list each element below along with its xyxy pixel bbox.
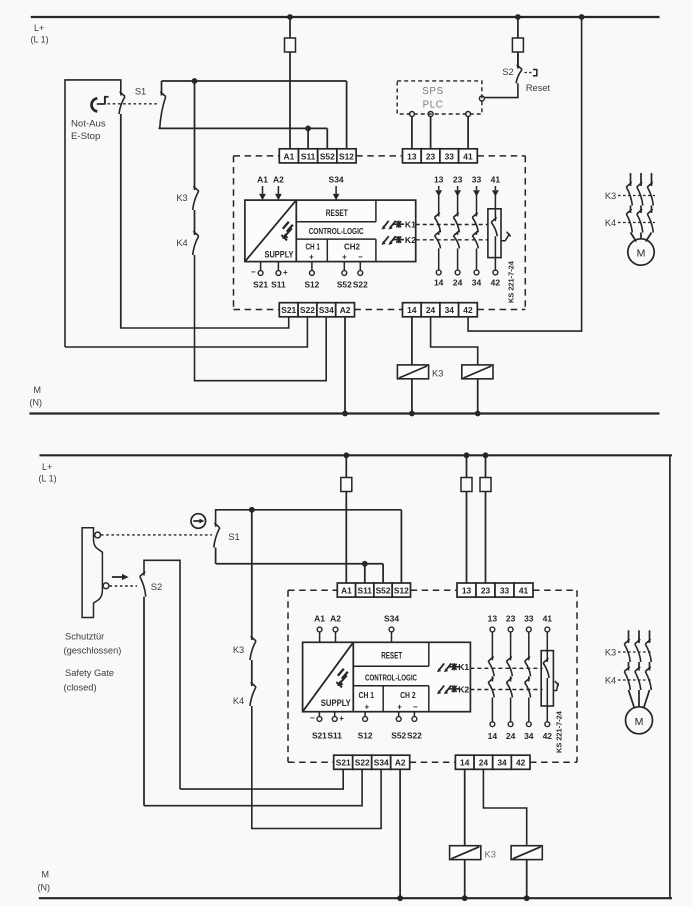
svg-text:SUPPLY: SUPPLY	[321, 697, 352, 708]
terminal strip 13 23 33 41	[403, 149, 422, 163]
safety relay module dashed outline bottom	[288, 589, 337, 591]
wire S22 route	[65, 316, 307, 347]
switch S2 reset button	[517, 52, 519, 69]
supply section divider and diagonal	[295, 200, 297, 262]
gate roller bottom	[103, 583, 109, 589]
wire e-stop staple loop	[65, 80, 121, 347]
contact K4 feedback bottom	[250, 687, 256, 706]
mechanical link e-stop to S1	[108, 103, 159, 105]
motor branch supply stubs	[630, 173, 632, 186]
relay K2 actuation dashed line	[416, 239, 488, 241]
svg-text:S52: S52	[391, 731, 406, 741]
svg-text:41: 41	[463, 151, 473, 161]
svg-text:KS 221-7-24: KS 221-7-24	[507, 260, 516, 303]
wire S12 drop	[346, 81, 348, 149]
module pin S22 bottom	[413, 712, 415, 717]
fuse F2 on reset/contact supply wire	[515, 14, 521, 20]
NC contact seat tick bottom	[553, 683, 558, 691]
CONTROL-LOGIC band bottom	[353, 685, 429, 687]
channel CH2 box	[375, 239, 377, 262]
svg-text:Safety Gate: Safety Gate	[65, 668, 114, 678]
wires into motor	[631, 233, 637, 242]
svg-text:K1: K1	[405, 220, 416, 230]
contactor K4 main contacts bottom	[618, 679, 653, 681]
PLC terminal to reset switch	[479, 96, 484, 101]
svg-text:(geschlossen): (geschlossen)	[64, 646, 122, 656]
node M rail (top diagram)	[29, 412, 659, 414]
module pin S11 with plus	[277, 262, 279, 271]
wire 14 to coil K3 bottom	[464, 769, 466, 845]
wire 24 to contactor coil K4	[431, 316, 478, 365]
svg-text:+: +	[397, 703, 402, 712]
svg-text:(closed): (closed)	[64, 683, 97, 693]
svg-text:+: +	[309, 252, 314, 261]
svg-text:S12: S12	[358, 731, 373, 741]
svg-text:S2: S2	[151, 582, 163, 593]
svg-text:+: +	[283, 268, 288, 277]
emergency stop actuator (mushroom head)	[92, 98, 98, 111]
svg-text:RESET: RESET	[381, 651, 402, 661]
svg-text:S2: S2	[502, 67, 513, 77]
fuse F4 on 13 wire	[464, 452, 470, 458]
svg-text:CH 1: CH 1	[305, 242, 320, 251]
fuse F3 on A1 wire	[343, 452, 349, 458]
contactor K3 main contacts	[618, 195, 655, 197]
svg-text:41: 41	[491, 175, 501, 185]
terminal strip 13 23 33 41 bottom	[457, 583, 476, 597]
svg-text:S21: S21	[281, 305, 296, 315]
svg-text:S21: S21	[253, 280, 268, 290]
svg-text:M: M	[635, 716, 644, 728]
svg-text:S1: S1	[135, 87, 146, 97]
svg-text:14: 14	[488, 731, 498, 741]
svg-text:23: 23	[506, 614, 516, 624]
svg-text:−: −	[413, 703, 418, 712]
motor branch supply stubs bottom	[628, 630, 630, 643]
svg-text:S52: S52	[376, 586, 391, 596]
svg-text:A1: A1	[341, 586, 352, 596]
contactor coil K4 bottom	[511, 846, 542, 860]
supply isolation symbol bottom	[338, 669, 344, 676]
wire A2 to M rail	[344, 316, 346, 413]
relay K2 indicator	[384, 236, 389, 243]
module pin S52	[343, 262, 345, 271]
svg-text:−: −	[358, 252, 363, 261]
channel CH2 box bottom	[428, 686, 430, 712]
svg-text:Not-Aus: Not-Aus	[71, 119, 106, 130]
svg-text:CONTROL-LOGIC: CONTROL-LOGIC	[309, 227, 364, 236]
wire A2 to M rail bottom	[399, 769, 401, 898]
node junction S11 tap	[305, 125, 311, 131]
wire S22 route bottom	[144, 769, 362, 805]
svg-text:S34: S34	[329, 175, 344, 185]
wire 24 to coil K4 bottom	[483, 769, 526, 845]
module pin S21 bottom	[318, 712, 320, 717]
svg-text:CH2: CH2	[344, 242, 360, 251]
wires into motor bottom	[629, 690, 635, 709]
module pin S11 bottom	[334, 712, 336, 717]
contactor K4 main contacts	[618, 222, 655, 224]
svg-text:A2: A2	[395, 758, 406, 768]
svg-text:42: 42	[516, 758, 526, 768]
wire feedback chain from S1 junction	[194, 81, 196, 190]
svg-text:(N): (N)	[38, 883, 51, 893]
svg-text:K3: K3	[485, 850, 496, 860]
wire 14 to contactor coil K3	[411, 316, 413, 365]
positive opening symbol	[191, 514, 206, 529]
svg-text:S1: S1	[228, 532, 240, 543]
safety gate symbol	[82, 528, 102, 618]
svg-text:S21: S21	[312, 731, 327, 741]
svg-text:24: 24	[426, 305, 436, 315]
node L+ rail (bottom diagram)	[40, 454, 673, 456]
svg-text:24: 24	[453, 278, 463, 288]
svg-text:SUPPLY: SUPPLY	[265, 249, 295, 260]
wire S1 pole2 bottom to S11/S52	[159, 127, 328, 129]
svg-text:K2: K2	[458, 684, 469, 694]
svg-text:S11: S11	[301, 151, 316, 161]
svg-text:+: +	[364, 703, 369, 712]
relay K2 dashed line bottom	[470, 689, 542, 691]
module pin S12 bottom	[364, 712, 366, 717]
contact K3 feedback bottom	[250, 641, 256, 660]
terminal strip 14 24 34 42 bottom	[455, 755, 474, 769]
node L+ rail (top diagram)	[31, 16, 660, 18]
NC contact seat tick	[501, 234, 510, 241]
svg-text:33: 33	[445, 151, 455, 161]
wire S2 to PLC	[485, 83, 518, 97]
svg-text:CONTROL-LOGIC: CONTROL-LOGIC	[365, 673, 417, 682]
svg-text:L+: L+	[42, 462, 52, 472]
contact K4 feedback (in S34 chain)	[193, 236, 199, 255]
wire chain to S34 bottom	[252, 706, 381, 829]
svg-text:23: 23	[481, 586, 491, 596]
svg-text:34: 34	[524, 731, 534, 741]
actuation direction arrow	[112, 576, 124, 578]
wire S11 drop	[307, 128, 309, 148]
svg-text:RESET: RESET	[326, 208, 348, 218]
svg-text:23: 23	[453, 175, 463, 185]
motor M bottom	[626, 707, 653, 734]
svg-text:S34: S34	[319, 305, 334, 315]
svg-text:A2: A2	[273, 175, 284, 185]
svg-text:14: 14	[434, 278, 444, 288]
module pin S22	[359, 262, 361, 271]
svg-text:33: 33	[524, 614, 534, 624]
relay K1 indicator	[384, 221, 389, 228]
svg-text:−: −	[310, 714, 315, 723]
svg-text:13: 13	[434, 175, 444, 185]
svg-text:PLC: PLC	[423, 100, 444, 111]
svg-text:S11: S11	[271, 280, 286, 290]
svg-text:K1: K1	[458, 662, 469, 672]
terminal strip S21 S22 S34 A2 bottom	[334, 755, 353, 769]
terminal strip S21 S22 S34 A2	[279, 303, 298, 317]
terminal strip 14 24 34 42	[403, 303, 422, 317]
contactor K3 main contacts bottom	[618, 651, 653, 653]
relay K2 indicator bottom	[439, 686, 444, 693]
supply isolation symbol	[283, 222, 289, 229]
svg-text:K4: K4	[233, 696, 244, 706]
wire 42 return to L+	[468, 17, 581, 331]
switch S2 (gate closed NO)	[144, 560, 180, 789]
svg-text:CH 1: CH 1	[359, 691, 375, 700]
svg-text:K3: K3	[605, 648, 616, 658]
svg-text:S12: S12	[394, 586, 409, 596]
svg-text:42: 42	[543, 731, 553, 741]
terminal strip A1 S11 S52 S12 bottom	[337, 583, 355, 597]
wire S1 bottom to S11/S52	[216, 563, 384, 565]
svg-text:S34: S34	[374, 758, 389, 768]
wire S21 route bottom	[180, 769, 343, 789]
svg-text:S52: S52	[320, 151, 335, 161]
svg-text:14: 14	[407, 305, 417, 315]
svg-text:K3: K3	[176, 193, 187, 203]
wire S12 drop bottom diagram	[400, 510, 402, 583]
module pin S12	[311, 262, 313, 271]
fuse F1 on A1 supply wire	[287, 14, 293, 20]
contactor coil K3 bottom	[450, 846, 481, 860]
svg-text:A1: A1	[257, 175, 268, 185]
mechanical link gate to S1	[101, 534, 212, 536]
switch S1 (gate closed NC)	[216, 510, 402, 527]
module body	[245, 200, 416, 262]
node junction S11 tap bottom	[362, 561, 368, 567]
svg-text:S22: S22	[353, 280, 368, 290]
node junction S1 top / chain	[249, 507, 255, 513]
svg-text:K4: K4	[176, 238, 187, 248]
svg-text:CH 2: CH 2	[400, 691, 416, 700]
svg-text:13: 13	[462, 586, 472, 596]
svg-text:24: 24	[479, 758, 489, 768]
wire S52 drop	[326, 128, 328, 148]
svg-text:41: 41	[543, 614, 553, 624]
safety relay module dashed outline	[234, 155, 280, 157]
svg-text:23: 23	[426, 151, 436, 161]
svg-text:−: −	[251, 268, 256, 277]
relay K1 actuation dashed line	[416, 224, 488, 226]
supply divider bottom	[352, 642, 354, 711]
svg-text:+: +	[339, 714, 344, 723]
svg-text:(L 1): (L 1)	[31, 35, 49, 45]
svg-text:24: 24	[506, 731, 516, 741]
svg-text:S11: S11	[327, 731, 342, 741]
wire between K3 and K4 feedback contacts	[194, 210, 196, 235]
PLC box SPS/PLC	[397, 81, 482, 114]
svg-text:S12: S12	[304, 280, 319, 290]
node M rail (bottom diagram)	[39, 897, 672, 899]
svg-text:K4: K4	[605, 218, 616, 228]
fuse F5 on 23 wire	[483, 452, 489, 458]
svg-text:A1: A1	[314, 614, 325, 624]
module pin S52 bottom	[398, 712, 400, 717]
channel CH1 box bottom	[382, 686, 384, 712]
wire S21 route	[120, 316, 289, 328]
relay K1 dashed line bottom	[470, 667, 542, 669]
svg-text:S52: S52	[337, 280, 352, 290]
svg-text:34: 34	[445, 305, 455, 315]
svg-text:13: 13	[407, 151, 417, 161]
CONTROL-LOGIC band	[296, 238, 376, 240]
contact K3 feedback (in S34 chain)	[193, 191, 199, 210]
svg-text:34: 34	[472, 278, 482, 288]
svg-text:A2: A2	[330, 614, 341, 624]
svg-text:K3: K3	[605, 191, 616, 201]
wire S11 drop bottom	[364, 564, 366, 583]
svg-text:S22: S22	[300, 305, 315, 315]
module body bottom	[303, 642, 471, 711]
motor M	[628, 239, 654, 265]
svg-text:+: +	[342, 252, 347, 261]
svg-text:33: 33	[472, 175, 482, 185]
svg-text:33: 33	[500, 586, 510, 596]
svg-text:K2: K2	[405, 235, 416, 245]
svg-text:S34: S34	[384, 614, 399, 624]
wire feedback chain bottom diagram	[251, 510, 253, 640]
wire S52 drop bottom	[382, 564, 384, 583]
wire S1 pole1 to S21 route	[120, 114, 122, 328]
reset pushbutton actuator	[525, 72, 532, 74]
svg-text:Schutztür: Schutztür	[65, 632, 104, 642]
PLC terminal to 23	[428, 112, 433, 117]
channel CH1 box	[326, 239, 328, 262]
svg-text:A2: A2	[340, 305, 351, 315]
contactor coil K4	[462, 365, 493, 379]
PLC terminal to 41	[466, 112, 471, 117]
svg-text:K3: K3	[233, 645, 244, 655]
svg-text:42: 42	[463, 305, 473, 315]
wire chain to S34	[195, 255, 327, 381]
RESET box bottom	[353, 665, 429, 667]
switch S1 pole 1 (left, channel 2)	[119, 97, 125, 115]
contactor coil K3	[397, 365, 428, 379]
wire S1 pole2 top to S12	[162, 80, 347, 82]
svg-text:M: M	[42, 870, 50, 880]
svg-text:(L 1): (L 1)	[39, 474, 57, 484]
wire right-hand return conductor	[669, 455, 671, 898]
RESET box	[296, 221, 376, 223]
relay K1 indicator bottom	[439, 663, 444, 670]
switch S1 pole 2 (right, channel 1)	[161, 81, 163, 96]
svg-text:S11: S11	[358, 586, 373, 596]
svg-text:SPS: SPS	[422, 86, 443, 97]
svg-text:42: 42	[491, 278, 501, 288]
svg-text:A1: A1	[284, 151, 295, 161]
svg-text:M: M	[34, 385, 42, 395]
mechanical link gate to S2	[110, 585, 138, 587]
svg-text:(N): (N)	[30, 398, 43, 408]
svg-text:S12: S12	[339, 151, 354, 161]
PLC terminal to 13	[409, 112, 414, 117]
svg-text:34: 34	[497, 758, 507, 768]
node junction S1/K3-chain	[192, 78, 198, 84]
svg-text:M: M	[637, 248, 646, 260]
svg-text:13: 13	[488, 614, 498, 624]
svg-text:K3: K3	[432, 369, 443, 379]
svg-text:S21: S21	[336, 758, 351, 768]
module pin S21 with minus	[260, 262, 262, 271]
terminal strip A1 S11 S52 S12	[279, 149, 298, 163]
svg-text:41: 41	[519, 586, 529, 596]
svg-text:S22: S22	[355, 758, 370, 768]
svg-text:14: 14	[460, 758, 470, 768]
svg-text:S22: S22	[407, 731, 422, 741]
gate roller top	[95, 532, 101, 538]
svg-text:E-Stop: E-Stop	[71, 131, 100, 142]
svg-text:K4: K4	[605, 676, 616, 686]
svg-text:KS 221-7-24: KS 221-7-24	[555, 710, 564, 753]
svg-text:Reset: Reset	[526, 83, 551, 93]
svg-text:L+: L+	[34, 23, 44, 33]
